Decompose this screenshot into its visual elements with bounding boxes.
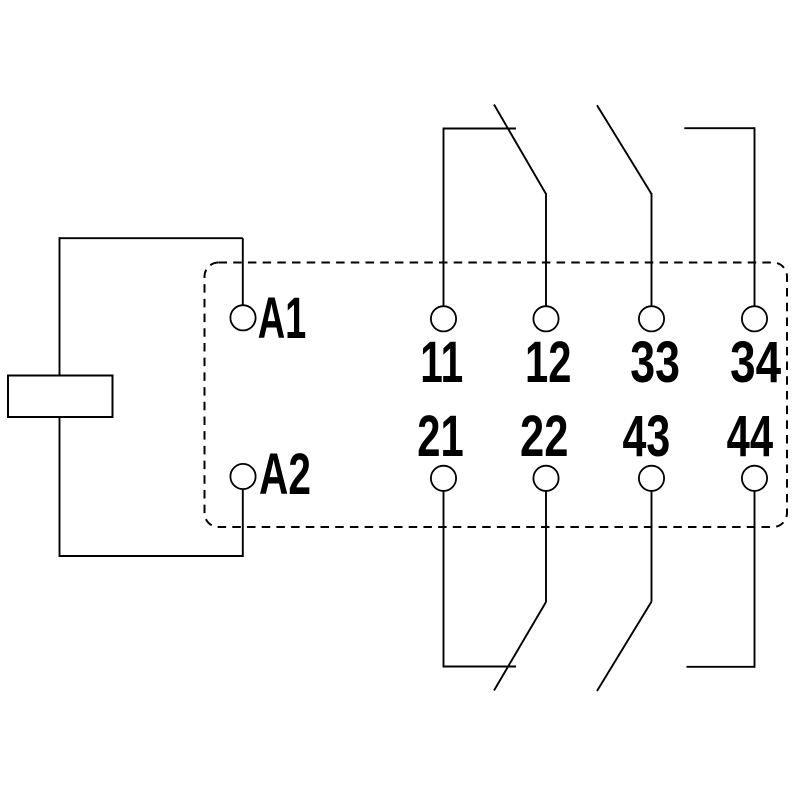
terminal 33 circle: [639, 306, 664, 331]
wire coil bottom horizontal: [59, 555, 244, 557]
contact blade 43 (NO diagonal): [597, 602, 652, 691]
svg-text:22: 22: [520, 404, 568, 468]
wire terminal 44 vertical: [754, 491, 756, 668]
wire contact 44 fixed horizontal: [687, 666, 755, 668]
svg-text:34: 34: [730, 331, 781, 395]
wire terminal 12 vertical: [545, 193, 547, 306]
contact blade 22 (NC diagonal): [494, 602, 546, 691]
label pin 22: [520, 404, 568, 468]
coil K1: [8, 376, 113, 418]
label pin 44: [727, 403, 773, 468]
label pin 11: [420, 330, 463, 395]
label A2: [259, 442, 311, 507]
contact blade 12 (NC diagonal): [494, 105, 546, 195]
svg-text:21: 21: [417, 403, 463, 468]
wire terminal 33 vertical: [651, 193, 653, 306]
label pin 43: [623, 404, 671, 469]
svg-text:11: 11: [420, 330, 463, 395]
svg-text:A2: A2: [259, 442, 311, 507]
label pin 21: [417, 403, 463, 468]
terminal 34 circle: [742, 306, 767, 331]
svg-text:33: 33: [630, 329, 680, 394]
wire coil left vertical: [59, 237, 61, 556]
label A1: [258, 287, 307, 351]
svg-text:43: 43: [623, 404, 671, 469]
wire A1 drop: [242, 238, 244, 305]
label pin 33: [630, 329, 680, 394]
label pin 34: [730, 331, 781, 395]
wire contact 11 fixed horizontal: [444, 128, 517, 130]
wire terminal 43 vertical: [651, 491, 653, 602]
svg-text:12: 12: [525, 329, 571, 394]
wire contact 21 fixed horizontal: [444, 666, 517, 668]
terminal 11 circle: [431, 306, 456, 331]
wire terminal 11 vertical: [443, 128, 445, 307]
label pin 12: [525, 329, 571, 394]
wire terminal 34 vertical: [754, 127, 756, 306]
terminal 43 circle: [639, 466, 664, 491]
svg-text:A1: A1: [258, 287, 307, 351]
wire coil top horizontal: [59, 237, 244, 239]
terminal A1 circle: [230, 305, 255, 330]
wire contact 34 fixed horizontal: [684, 127, 754, 129]
contact blade 33 (NO diagonal): [597, 105, 652, 194]
wire A2 riser: [242, 489, 244, 555]
wire terminal 21 vertical: [443, 491, 445, 668]
terminal 21 circle: [431, 466, 456, 491]
svg-text:44: 44: [727, 403, 773, 468]
terminal 12 circle: [533, 306, 558, 331]
terminal 22 circle: [533, 466, 558, 491]
terminal 44 circle: [742, 466, 767, 491]
terminal A2 circle: [230, 464, 255, 489]
wire terminal 22 vertical: [545, 491, 547, 602]
relay outline dashed box: [205, 263, 788, 528]
